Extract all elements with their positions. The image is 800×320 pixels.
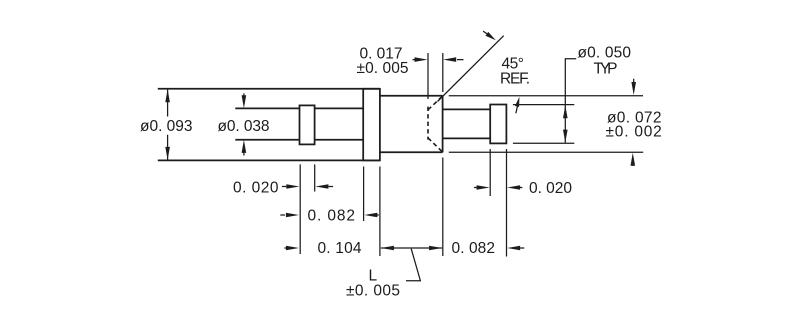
flange bbox=[363, 89, 380, 161]
dim 0.020 left stems bbox=[282, 186, 333, 188]
extension line right collar bottom bbox=[513, 142, 574, 144]
svg-text:0. 104: 0. 104 bbox=[318, 240, 362, 257]
extension body face below bbox=[442, 158, 444, 257]
dim dia 0.072 stems bbox=[632, 79, 635, 166]
extension left collar right edge bbox=[314, 164, 316, 191]
arrowhead 0.082 row2 left bbox=[364, 213, 377, 218]
arrowhead dia 0.072 down bbox=[631, 82, 636, 95]
svg-text:ø0. 093: ø0. 093 bbox=[140, 118, 193, 135]
extension line right collar top bbox=[513, 104, 574, 106]
svg-text:0. 020: 0. 020 bbox=[529, 180, 572, 197]
arrowhead 0.082 right left bbox=[507, 246, 520, 251]
extension right collar right below bbox=[506, 149, 508, 257]
hidden chamfer lower bbox=[428, 138, 443, 152]
hidden chamfer upper bbox=[428, 96, 443, 110]
left pin shaft top line bbox=[235, 107, 363, 109]
svg-text:0. 082: 0. 082 bbox=[452, 240, 496, 257]
arrowhead dia 0.072 up bbox=[631, 153, 636, 166]
svg-text:ø0. 050: ø0. 050 bbox=[578, 45, 632, 62]
extension chamfer above bbox=[427, 53, 429, 99]
arrowhead 0.020 right left bbox=[507, 185, 520, 190]
svg-text:±0. 002: ±0. 002 bbox=[606, 123, 662, 140]
svg-text:±0. 005: ±0. 005 bbox=[357, 60, 409, 77]
body face line bbox=[442, 96, 444, 153]
dim 0.104 left stem bbox=[284, 247, 286, 249]
arrowhead 0.104 right bbox=[286, 246, 299, 251]
extension flange right edge bbox=[379, 167, 381, 257]
svg-text:REF.: REF. bbox=[500, 71, 530, 88]
arrowhead 0.017 right bbox=[415, 57, 428, 62]
extension line body top right bbox=[449, 95, 643, 97]
arrowhead 0.020 left right bbox=[286, 184, 299, 189]
extension right collar left below bbox=[489, 149, 491, 196]
dia 0.050 leader and dim line bbox=[565, 59, 576, 143]
arrowhead 0.020 left left bbox=[315, 184, 328, 189]
left collar bbox=[300, 105, 315, 144]
extension line body bottom right bbox=[449, 151, 643, 153]
svg-text:±0. 005: ±0. 005 bbox=[346, 283, 400, 300]
arrowhead 0.017 left bbox=[443, 57, 456, 62]
top extension line / flange top edge bbox=[158, 88, 380, 90]
leader for L dimension bbox=[406, 249, 420, 281]
dim 0.082 right stem bbox=[520, 247, 525, 249]
45 deg construction line bbox=[438, 36, 504, 102]
right collar bbox=[490, 105, 506, 144]
dim stems dia 0.038 bbox=[243, 93, 245, 155]
arrowhead dia 0.093 down bbox=[165, 147, 170, 160]
svg-text:0. 020: 0. 020 bbox=[233, 179, 279, 196]
right pin shaft top line bbox=[443, 108, 491, 110]
dim line 0.017 bbox=[413, 59, 464, 61]
svg-text:ø0. 038: ø0. 038 bbox=[218, 118, 270, 135]
arrowhead dia 0.038 down bbox=[242, 95, 247, 108]
right pin shaft bottom line bbox=[443, 137, 491, 139]
arrowhead 0.082 row2 right bbox=[286, 213, 299, 218]
dim 0.082 row2 stems bbox=[280, 214, 379, 216]
svg-text:TYP: TYP bbox=[594, 61, 618, 78]
dim L line bbox=[381, 247, 442, 249]
45 deg leader stem bbox=[483, 31, 487, 34]
arrowhead dia 0.050 down bbox=[563, 130, 568, 143]
extension body face above bbox=[442, 53, 444, 92]
arrowhead 45 deg leader bbox=[486, 32, 496, 40]
dim 0.020 right stems bbox=[474, 187, 522, 189]
arrowhead L right bbox=[429, 246, 442, 251]
svg-text:0. 082: 0. 082 bbox=[308, 208, 356, 225]
body bottom line bbox=[380, 151, 443, 153]
hidden counterbore bottom edge bbox=[427, 107, 429, 140]
extension left collar left edge bbox=[299, 164, 301, 254]
left pin shaft bottom line bbox=[235, 139, 363, 141]
arrowhead small stub up bbox=[515, 97, 519, 107]
arrowhead dia 0.038 up bbox=[242, 140, 247, 153]
small stub arrow stem bbox=[516, 106, 518, 113]
arrowhead 0.020 right right bbox=[477, 185, 490, 190]
arrowhead dia 0.050 up bbox=[563, 105, 568, 118]
bottom extension line / flange bottom edge bbox=[158, 159, 380, 161]
dim line dia 0.093 bbox=[167, 90, 169, 160]
arrowhead L left bbox=[381, 246, 394, 251]
arrowhead dia 0.093 up bbox=[165, 89, 170, 102]
extension flange left edge bbox=[363, 167, 365, 222]
body top line bbox=[380, 95, 443, 97]
